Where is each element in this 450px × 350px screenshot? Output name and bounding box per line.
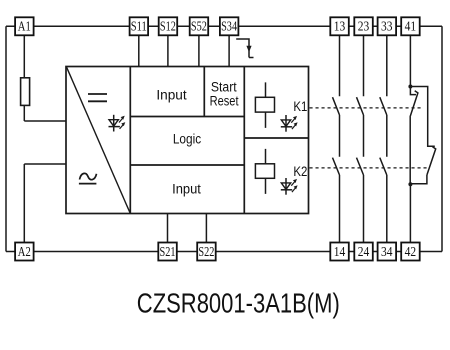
svg-text:Logic: Logic xyxy=(173,132,202,147)
svg-text:42: 42 xyxy=(405,245,417,260)
svg-text:S21: S21 xyxy=(160,245,176,260)
svg-text:S34: S34 xyxy=(221,20,237,35)
svg-text:Input: Input xyxy=(172,182,201,197)
svg-text:13: 13 xyxy=(334,20,346,35)
svg-text:Input: Input xyxy=(156,87,187,102)
svg-text:S12: S12 xyxy=(160,20,176,35)
svg-text:Start: Start xyxy=(211,79,237,94)
svg-text:S52: S52 xyxy=(191,20,207,35)
svg-text:A1: A1 xyxy=(18,20,31,35)
svg-text:33: 33 xyxy=(381,20,393,35)
svg-text:Reset: Reset xyxy=(210,94,239,109)
svg-text:41: 41 xyxy=(405,20,417,35)
svg-text:CZSR8001-3A1B(M): CZSR8001-3A1B(M) xyxy=(137,288,340,319)
svg-text:A2: A2 xyxy=(18,245,31,260)
svg-text:S22: S22 xyxy=(198,245,214,260)
svg-text:23: 23 xyxy=(358,20,370,35)
svg-text:34: 34 xyxy=(381,245,393,260)
svg-text:14: 14 xyxy=(334,245,346,260)
svg-text:K1: K1 xyxy=(293,99,307,114)
svg-text:K2: K2 xyxy=(293,164,307,179)
svg-text:24: 24 xyxy=(358,245,370,260)
svg-text:S11: S11 xyxy=(131,20,147,35)
